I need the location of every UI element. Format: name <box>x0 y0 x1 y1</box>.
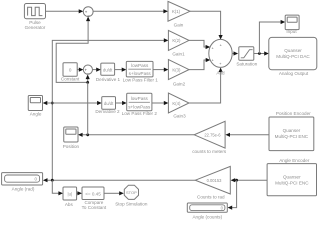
svg-text:Gain: Gain <box>174 22 184 27</box>
wire <box>254 20 285 56</box>
svg-text:Gain1: Gain1 <box>172 52 185 57</box>
block Saturation <box>236 47 257 67</box>
block Analog Output <box>269 37 317 76</box>
wire <box>153 68 168 72</box>
block Position Encoder <box>269 111 314 151</box>
block Compare To Constant <box>82 187 107 210</box>
svg-text:0: 0 <box>69 68 72 73</box>
svg-text:Low Pass Filter 2: Low Pass Filter 2 <box>122 111 158 116</box>
svg-text:Gain2: Gain2 <box>173 81 186 86</box>
wire <box>86 75 90 84</box>
wire <box>232 51 238 55</box>
svg-text:Position Encoder: Position Encoder <box>276 111 311 116</box>
svg-text:Generator: Generator <box>25 25 46 30</box>
svg-text:Quanser: Quanser <box>283 128 301 133</box>
wire <box>77 191 82 195</box>
svg-text:K(3): K(3) <box>172 67 181 72</box>
svg-text:MultiQ-PCI ENC: MultiQ-PCI ENC <box>275 180 309 185</box>
svg-text:Angle: Angle <box>30 111 42 116</box>
svg-text:s+lowPass: s+lowPass <box>129 71 152 76</box>
wire <box>93 68 101 72</box>
block Low Pass Filter 2 <box>122 93 158 116</box>
gain counts to meters <box>192 121 227 154</box>
svg-text:Abs: Abs <box>65 202 74 207</box>
svg-text:Counts to rad: Counts to rad <box>197 194 225 199</box>
wire <box>152 101 169 105</box>
display Angle (counts) <box>187 203 227 219</box>
svg-text:Add: Add <box>216 70 225 75</box>
svg-text:Stop Simulation: Stop Simulation <box>115 201 148 206</box>
svg-text:lowPass: lowPass <box>131 96 149 101</box>
scope Angle <box>28 96 42 117</box>
svg-text:lowPass: lowPass <box>131 63 149 68</box>
svg-text:Input: Input <box>286 29 297 34</box>
svg-text:Derivative 1: Derivative 1 <box>96 77 121 82</box>
gain K(1) <box>168 1 190 27</box>
gain K(4) <box>168 93 189 118</box>
display Angle (rad) <box>2 173 43 192</box>
svg-text:MultiQ-PCI DAC: MultiQ-PCI DAC <box>276 54 310 59</box>
gain K(2) <box>168 30 189 56</box>
sum S1 <box>83 7 93 17</box>
wire <box>43 178 195 182</box>
svg-text:du/dt: du/dt <box>103 67 113 72</box>
svg-text:0.00153: 0.00153 <box>207 178 223 183</box>
block Low Pass Filter 1 <box>123 61 159 82</box>
wire angle feedback <box>52 38 168 180</box>
svg-text:_: _ <box>86 69 90 74</box>
svg-text:Angle (rad): Angle (rad) <box>12 187 35 192</box>
svg-text:<= 0.45: <= 0.45 <box>85 192 101 197</box>
svg-text:22.75e-6: 22.75e-6 <box>204 133 221 138</box>
sum S2 <box>83 65 92 74</box>
svg-text:MultiQ-PCI ENC: MultiQ-PCI ENC <box>275 134 309 139</box>
svg-text:Derivative 2: Derivative 2 <box>95 109 120 114</box>
svg-text:STOP: STOP <box>126 190 137 195</box>
block Abs <box>63 187 77 207</box>
block Pulse Generator <box>24 4 45 31</box>
wire <box>189 58 210 70</box>
wire <box>228 178 268 210</box>
wire <box>104 191 124 195</box>
svg-text:Angle (counts): Angle (counts) <box>192 214 222 219</box>
wire <box>190 11 223 39</box>
wire <box>46 9 84 13</box>
wire <box>189 40 210 49</box>
svg-text:|u|: |u| <box>68 192 73 197</box>
wire <box>78 82 194 136</box>
svg-text:Saturation: Saturation <box>236 62 257 67</box>
wire <box>43 101 102 105</box>
svg-text:Low Pass Filter 1: Low Pass Filter 1 <box>123 77 159 82</box>
svg-text:s+lowPass: s+lowPass <box>128 105 151 110</box>
wire <box>77 68 83 72</box>
block Angle Encoder <box>267 158 316 196</box>
svg-text:du/dt: du/dt <box>104 101 114 106</box>
wire position feedback <box>56 17 90 83</box>
svg-text:Constant: Constant <box>61 77 80 82</box>
wire <box>93 9 168 13</box>
scope Input <box>285 15 299 34</box>
wire <box>116 101 127 105</box>
svg-text:K(4): K(4) <box>172 101 181 106</box>
wire <box>189 68 223 104</box>
svg-text:_: _ <box>86 11 90 16</box>
block Derivative 1 <box>96 63 121 82</box>
block Derivative 2 <box>95 97 120 115</box>
svg-text:Analog Output: Analog Output <box>279 71 309 76</box>
wire <box>225 133 269 137</box>
wire <box>115 68 127 72</box>
svg-text:Quanser: Quanser <box>283 175 301 180</box>
wire <box>52 180 63 195</box>
svg-text:counts to meters: counts to meters <box>192 149 227 154</box>
svg-text:Gain3: Gain3 <box>173 113 186 118</box>
block Stop Simulation <box>115 185 148 206</box>
svg-text:Position: Position <box>63 144 80 149</box>
gain Counts to rad <box>195 166 230 199</box>
gain K(3) <box>168 60 189 87</box>
svg-text:K(2): K(2) <box>172 38 181 43</box>
svg-text:Angle Encoder: Angle Encoder <box>279 158 310 163</box>
svg-text:Quanser: Quanser <box>284 48 302 53</box>
block Constant <box>61 63 80 82</box>
svg-text:K(1): K(1) <box>172 9 181 14</box>
scope Position <box>63 127 80 149</box>
sum Add <box>209 39 232 75</box>
svg-text:To Constant: To Constant <box>82 205 107 210</box>
